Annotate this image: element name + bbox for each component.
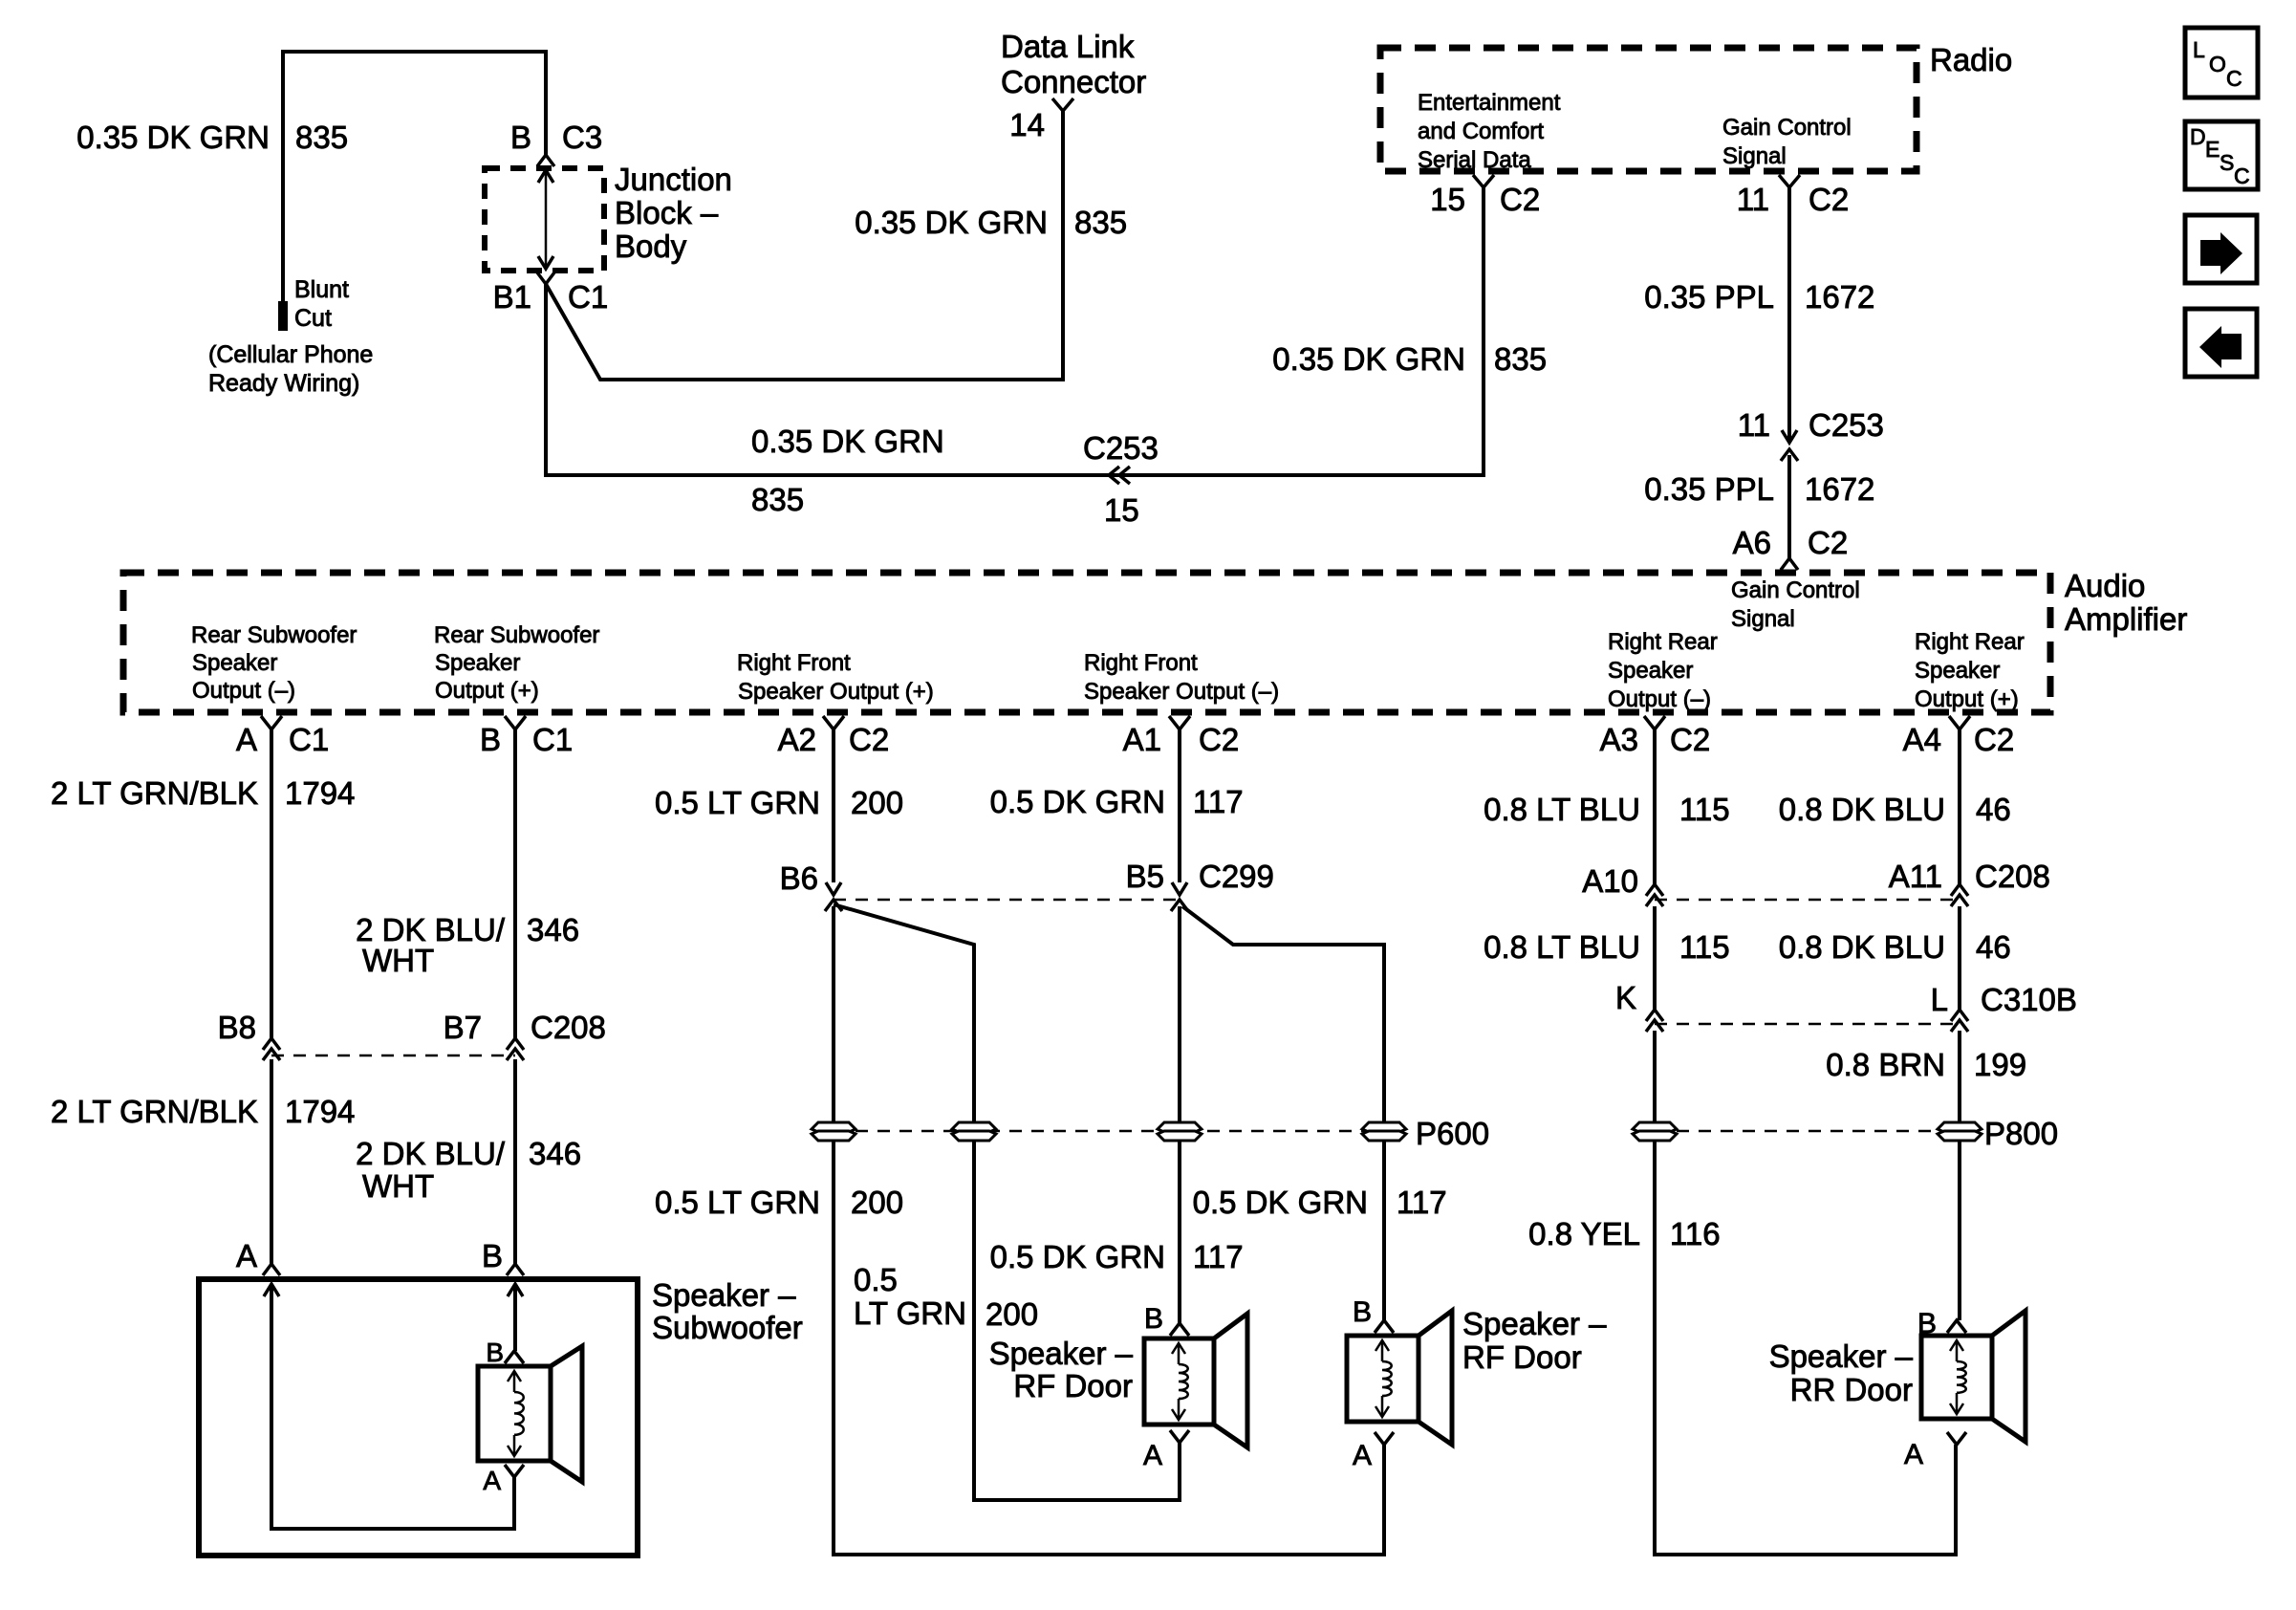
svg-text:B: B	[1144, 1303, 1163, 1335]
svg-text:Amplifier: Amplifier	[2065, 601, 2187, 637]
svg-text:Data Link: Data Link	[1001, 29, 1135, 64]
svg-text:A: A	[483, 1466, 501, 1495]
inline connector C253 pin 11	[1738, 407, 1884, 461]
connector pin A6 C2 on amplifier	[1733, 525, 1849, 570]
svg-text:Output (+): Output (+)	[1915, 686, 2019, 712]
svg-text:C2: C2	[1500, 182, 1540, 217]
svg-text:A10: A10	[1582, 863, 1638, 899]
speaker - RF door (2)	[1347, 1296, 1607, 1471]
connector pin A1 C2 on amplifier	[1123, 716, 1240, 757]
svg-text:(Cellular Phone: (Cellular Phone	[208, 341, 373, 368]
svg-text:C253: C253	[1809, 407, 1884, 443]
wire amp A to subwoofer A (ckt 1794)	[270, 729, 273, 1264]
wire label 0.5 DK GRN 117 (upper)	[990, 784, 1244, 819]
connector pin A C1 on amplifier	[236, 716, 329, 757]
connector pin 15 C2 on radio	[1430, 175, 1540, 217]
svg-text:835: 835	[1074, 205, 1127, 240]
svg-text:Right Rear: Right Rear	[1608, 629, 1718, 655]
junction block - body (dashed box)	[485, 162, 732, 271]
svg-text:Speaker Output (+): Speaker Output (+)	[738, 679, 934, 705]
wire label 0.35 DK GRN 835 (DLC wire)	[855, 205, 1127, 240]
svg-text:0.8 BRN: 0.8 BRN	[1826, 1047, 1945, 1082]
svg-text:K: K	[1615, 980, 1636, 1015]
svg-text:0.35 DK GRN: 0.35 DK GRN	[76, 120, 270, 155]
svg-text:0.8 DK BLU: 0.8 DK BLU	[1779, 792, 1945, 827]
svg-text:RR Door: RR Door	[1790, 1372, 1913, 1407]
svg-text:C2: C2	[849, 722, 889, 757]
inline connector B8 (C208)	[218, 1010, 280, 1060]
button left arrow	[2185, 309, 2257, 377]
svg-text:117: 117	[1193, 1239, 1244, 1274]
audio amplifier (dashed box)	[123, 568, 2187, 712]
svg-text:Signal: Signal	[1722, 143, 1787, 169]
svg-text:RF Door: RF Door	[1462, 1339, 1582, 1375]
svg-text:0.8 LT BLU: 0.8 LT BLU	[1484, 929, 1640, 965]
svg-text:A: A	[236, 1238, 257, 1273]
svg-text:1672: 1672	[1805, 279, 1874, 315]
grommet on A2 wire	[812, 1122, 856, 1141]
svg-text:Radio: Radio	[1930, 42, 2012, 77]
svg-text:346: 346	[529, 1136, 581, 1171]
wire label 0.8 DK BLU 46 (lower)	[1779, 929, 2011, 965]
subwoofer internal wire A side	[264, 1284, 514, 1529]
amp label right rear speaker output (-)	[1608, 629, 1718, 712]
wire B1 to radio pin 15 via C253 (ckt 835)	[546, 187, 1484, 475]
svg-text:Body: Body	[615, 228, 687, 264]
wire amp A4 down (ckt 46/199)	[1958, 729, 1961, 1320]
svg-text:835: 835	[751, 482, 804, 517]
svg-text:2 LT GRN/BLK: 2 LT GRN/BLK	[51, 1094, 258, 1129]
wire amp A1 down (ckt 117)	[1178, 729, 1181, 882]
svg-text:C3: C3	[562, 120, 602, 155]
svg-text:46: 46	[1976, 929, 2011, 965]
svg-text:C253: C253	[1083, 430, 1159, 466]
svg-text:Connector: Connector	[1001, 64, 1146, 99]
wire radio 11 to amp A6 (gain control signal, ckt 1672)	[1787, 187, 1791, 558]
svg-text:RF Door: RF Door	[1013, 1368, 1133, 1403]
svg-text:Speaker –: Speaker –	[1462, 1306, 1607, 1341]
svg-text:Speaker –: Speaker –	[1769, 1338, 1914, 1374]
svg-text:A: A	[1904, 1439, 1923, 1470]
grommet P600	[1362, 1116, 1489, 1151]
svg-text:14: 14	[1009, 107, 1045, 142]
svg-text:200: 200	[851, 1185, 903, 1220]
svg-text:116: 116	[1670, 1216, 1721, 1251]
grommet on A1 wire	[1158, 1122, 1202, 1141]
pin 14 label	[1009, 107, 1045, 142]
inline connector A10	[1582, 863, 1663, 906]
svg-text:A6: A6	[1733, 525, 1771, 560]
svg-text:Cut: Cut	[294, 305, 332, 332]
speaker - subwoofer (box)	[199, 1277, 803, 1556]
wire label 0.5 LT GRN 200 (lower, branch)	[854, 1262, 1038, 1332]
svg-text:15: 15	[1430, 182, 1465, 217]
svg-text:C1: C1	[289, 722, 329, 757]
button right arrow	[2185, 215, 2257, 283]
wire amp B to subwoofer B (ckt 346)	[513, 729, 517, 1264]
svg-text:200: 200	[851, 785, 903, 820]
svg-text:B6: B6	[780, 860, 818, 896]
svg-text:0.5: 0.5	[854, 1262, 898, 1297]
svg-text:199: 199	[1974, 1047, 2026, 1082]
svg-text:Junction: Junction	[615, 162, 732, 197]
wire B5 branch to RF door speaker 2 B terminal	[1182, 906, 1384, 1320]
svg-text:46: 46	[1976, 792, 2011, 827]
grommet on branch wire	[952, 1122, 996, 1141]
wire B6 branch to RF door speaker 1 A terminal	[834, 904, 1180, 1500]
junction block internal wire with arrows	[538, 170, 553, 269]
grommet dashed line P600	[834, 1130, 1384, 1133]
svg-text:Signal: Signal	[1731, 606, 1795, 632]
svg-text:C310B: C310B	[1981, 982, 2077, 1017]
connector pin B C3 on junction block	[510, 120, 602, 166]
svg-text:D: D	[2190, 124, 2206, 149]
wire label 0.8 LT BLU 115 (upper)	[1484, 792, 1730, 827]
svg-text:P800: P800	[1984, 1116, 2058, 1151]
speaker - RF door (1)	[989, 1303, 1247, 1471]
svg-text:Output (–): Output (–)	[192, 678, 295, 704]
svg-text:0.8 LT BLU: 0.8 LT BLU	[1484, 792, 1640, 827]
connector pin A on subwoofer	[236, 1238, 280, 1275]
svg-text:A3: A3	[1600, 722, 1638, 757]
svg-text:1794: 1794	[285, 775, 355, 811]
svg-text:A: A	[236, 722, 257, 757]
speaker - RR door	[1769, 1308, 2025, 1470]
svg-text:0.5 LT GRN: 0.5 LT GRN	[655, 785, 820, 820]
svg-text:Speaker: Speaker	[1915, 658, 2000, 684]
connector pin B1 C1 below junction block	[493, 272, 609, 315]
wire label 2 LT GRN/BLK 1794 (upper)	[51, 775, 355, 811]
wire label 2 LT GRN/BLK 1794 (lower)	[51, 1094, 355, 1129]
svg-text:B1: B1	[493, 279, 531, 315]
svg-text:1794: 1794	[285, 1094, 355, 1129]
svg-text:200: 200	[986, 1296, 1038, 1332]
inline connector B5 C299	[1126, 859, 1274, 911]
inline connector A11 C208	[1889, 859, 2050, 906]
svg-text:A4: A4	[1903, 722, 1941, 757]
svg-text:0.8 YEL: 0.8 YEL	[1528, 1216, 1640, 1251]
svg-text:Speaker –: Speaker –	[989, 1336, 1134, 1371]
svg-text:WHT: WHT	[362, 1168, 434, 1204]
wire label 0.35 DK GRN 835	[76, 120, 348, 155]
svg-text:B7: B7	[444, 1010, 482, 1045]
svg-text:C2: C2	[1974, 722, 2014, 757]
connector pin B on subwoofer	[482, 1238, 524, 1275]
wire label 0.5 LT GRN 200 (middle)	[655, 1185, 903, 1220]
svg-text:11: 11	[1738, 407, 1770, 443]
connector join dashed line K-L	[1655, 1023, 1960, 1026]
button LOC	[2185, 28, 2258, 98]
svg-text:Right Front: Right Front	[737, 650, 851, 676]
amp label right rear speaker output (+)	[1915, 629, 2025, 712]
svg-text:C299: C299	[1199, 859, 1274, 894]
amp label right front speaker output (+)	[737, 650, 934, 705]
svg-text:C208: C208	[1975, 859, 2050, 894]
svg-text:S: S	[2220, 150, 2234, 175]
wire label 2 DK BLU/WHT 346 (upper)	[356, 912, 579, 978]
radio label gain control signal	[1722, 115, 1852, 169]
wire B6 to RF door speaker 2 A terminal	[834, 906, 1384, 1555]
svg-text:A2: A2	[778, 722, 816, 757]
wire label 0.5 LT GRN 200 (upper)	[655, 785, 903, 820]
amp label rear subwoofer speaker output (+)	[434, 622, 599, 704]
inline connector K (C310B)	[1615, 980, 1663, 1032]
inline connector L C310B	[1931, 982, 2077, 1032]
svg-text:Speaker Output (–): Speaker Output (–)	[1084, 679, 1279, 705]
svg-text:Blunt: Blunt	[294, 276, 349, 303]
svg-text:C: C	[2234, 163, 2250, 188]
wire amp A2 down (ckt 200)	[832, 729, 835, 882]
svg-text:C1: C1	[532, 722, 573, 757]
wire label 0.5 DK GRN 117 (lower)	[990, 1239, 1244, 1274]
svg-text:Gain Control: Gain Control	[1731, 577, 1860, 603]
svg-text:0.5 DK GRN: 0.5 DK GRN	[990, 784, 1165, 819]
svg-text:0.35 PPL: 0.35 PPL	[1644, 471, 1774, 507]
svg-text:P600: P600	[1416, 1116, 1489, 1151]
svg-text:WHT: WHT	[362, 943, 434, 978]
wire B5 to RF door speaker 1 B terminal	[1178, 906, 1181, 1323]
svg-text:Output (–): Output (–)	[1608, 686, 1711, 712]
wire label 0.35 DK GRN 835 (radio pin 15 wire)	[1272, 341, 1547, 377]
svg-text:A: A	[1143, 1440, 1162, 1471]
svg-text:L: L	[2193, 37, 2205, 62]
wire label 0.35 DK GRN 835 (left of C253)	[751, 424, 944, 517]
svg-text:Gain Control: Gain Control	[1722, 115, 1852, 141]
svg-text:C: C	[2226, 66, 2242, 91]
inline connector B6	[780, 860, 842, 911]
wire label 0.35 PPL 1672 (upper)	[1644, 279, 1874, 315]
svg-text:B: B	[486, 1338, 504, 1367]
svg-text:11: 11	[1737, 182, 1769, 217]
svg-text:C2: C2	[1809, 182, 1849, 217]
svg-text:Audio: Audio	[2065, 568, 2145, 603]
svg-text:117: 117	[1193, 784, 1244, 819]
connector join dashed line B6-B5	[834, 899, 1180, 902]
svg-text:15: 15	[1104, 492, 1139, 528]
connector pin 11 C2 on radio	[1737, 175, 1849, 217]
svg-text:Entertainment: Entertainment	[1418, 90, 1561, 116]
wire label 0.8 DK BLU 46 (upper)	[1779, 792, 2011, 827]
svg-text:1672: 1672	[1805, 471, 1874, 507]
data link connector	[1001, 29, 1146, 111]
svg-text:B: B	[1917, 1308, 1937, 1339]
svg-text:0.5 DK GRN: 0.5 DK GRN	[990, 1239, 1165, 1274]
svg-text:A: A	[1353, 1440, 1372, 1471]
subwoofer internal wire B side	[508, 1284, 523, 1351]
connector join dashed line A10-A11	[1655, 899, 1960, 902]
grommet on A3 wire	[1633, 1122, 1677, 1141]
svg-text:Block –: Block –	[615, 195, 719, 230]
svg-text:C1: C1	[568, 279, 608, 315]
svg-text:115: 115	[1679, 792, 1730, 827]
amp label gain control signal	[1731, 577, 1860, 632]
svg-text:C208: C208	[531, 1010, 606, 1045]
svg-text:Rear Subwoofer: Rear Subwoofer	[191, 622, 357, 648]
connector pin A4 C2 on amplifier	[1903, 716, 2015, 757]
wire amp A3 down (ckt 115/116)	[1655, 729, 1956, 1555]
svg-text:Speaker: Speaker	[192, 650, 277, 676]
inline connector B7 C208	[444, 1010, 606, 1060]
svg-text:and Comfort: and Comfort	[1418, 119, 1544, 144]
svg-text:L: L	[1931, 982, 1948, 1017]
svg-text:2 LT GRN/BLK: 2 LT GRN/BLK	[51, 775, 258, 811]
grommet P800	[1938, 1116, 2058, 1151]
svg-text:115: 115	[1679, 929, 1730, 965]
subwoofer speaker element	[478, 1338, 582, 1495]
wire label 0.5 DK GRN 117 (branch)	[1193, 1185, 1447, 1220]
svg-text:0.35 DK GRN: 0.35 DK GRN	[1272, 341, 1465, 377]
svg-text:0.5 LT GRN: 0.5 LT GRN	[655, 1185, 820, 1220]
svg-text:B: B	[480, 722, 501, 757]
svg-text:Speaker –: Speaker –	[652, 1277, 796, 1313]
connector join dashed line B8-B7	[271, 1055, 515, 1057]
svg-text:A1: A1	[1123, 722, 1161, 757]
connector pin A3 C2 on amplifier	[1600, 716, 1711, 757]
svg-text:0.35 DK GRN: 0.35 DK GRN	[751, 424, 944, 459]
svg-text:346: 346	[527, 912, 579, 947]
svg-text:B8: B8	[218, 1010, 256, 1045]
svg-text:835: 835	[295, 120, 348, 155]
svg-text:0.5 DK GRN: 0.5 DK GRN	[1193, 1185, 1368, 1220]
svg-text:A11: A11	[1889, 859, 1942, 894]
wire label 0.8 BRN 199	[1826, 1047, 2026, 1082]
svg-text:C2: C2	[1199, 722, 1239, 757]
svg-text:0.8 DK BLU: 0.8 DK BLU	[1779, 929, 1945, 965]
svg-text:B: B	[1353, 1296, 1372, 1328]
svg-text:O: O	[2209, 52, 2226, 76]
svg-text:Speaker: Speaker	[1608, 658, 1693, 684]
button DESC	[2185, 121, 2258, 189]
svg-text:B: B	[482, 1238, 503, 1273]
inline connector C253 pin 15 (double chevron)	[1083, 430, 1159, 528]
svg-text:Speaker: Speaker	[435, 650, 520, 676]
wire label 2 DK BLU/WHT 346 (lower)	[356, 1136, 581, 1204]
svg-text:B5: B5	[1126, 859, 1164, 894]
svg-text:Subwoofer: Subwoofer	[652, 1310, 803, 1345]
wire label 0.35 PPL 1672 (lower)	[1644, 471, 1874, 507]
svg-text:C2: C2	[1808, 525, 1848, 560]
wire B1 to data link connector pin 14 (ckt 835)	[546, 110, 1063, 380]
wire label 0.8 LT BLU 115 (lower)	[1484, 929, 1730, 965]
connector pin B C1 on amplifier	[480, 716, 573, 757]
svg-text:Rear Subwoofer: Rear Subwoofer	[434, 622, 599, 648]
svg-text:Ready Wiring): Ready Wiring)	[208, 370, 359, 397]
svg-text:Output (+): Output (+)	[435, 678, 539, 704]
svg-text:117: 117	[1397, 1185, 1447, 1220]
svg-text:835: 835	[1494, 341, 1547, 377]
svg-text:0.35 PPL: 0.35 PPL	[1644, 279, 1774, 315]
svg-text:B: B	[510, 120, 531, 155]
amp label rear subwoofer speaker output (-)	[191, 622, 357, 704]
wire label 0.8 YEL 116	[1528, 1216, 1720, 1251]
connector pin A2 C2 on amplifier	[778, 716, 890, 757]
radio label entertainment and comfort serial data	[1418, 90, 1561, 173]
svg-text:Serial Data: Serial Data	[1418, 147, 1531, 173]
grommet dashed line P800	[1655, 1130, 1960, 1133]
svg-text:Right Front: Right Front	[1084, 650, 1198, 676]
svg-text:0.35 DK GRN: 0.35 DK GRN	[855, 205, 1048, 240]
svg-text:Right Rear: Right Rear	[1915, 629, 2025, 655]
wire blunt-cut to junction block B/C3 (ckt 835)	[283, 52, 546, 301]
svg-text:E: E	[2205, 137, 2220, 162]
radio (dashed box)	[1380, 42, 2012, 171]
amp label right front speaker output (-)	[1084, 650, 1279, 705]
svg-text:LT GRN: LT GRN	[854, 1295, 966, 1331]
svg-text:2 DK BLU/: 2 DK BLU/	[356, 1136, 506, 1171]
svg-text:C2: C2	[1670, 722, 1710, 757]
blunt cut terminal	[208, 276, 373, 397]
